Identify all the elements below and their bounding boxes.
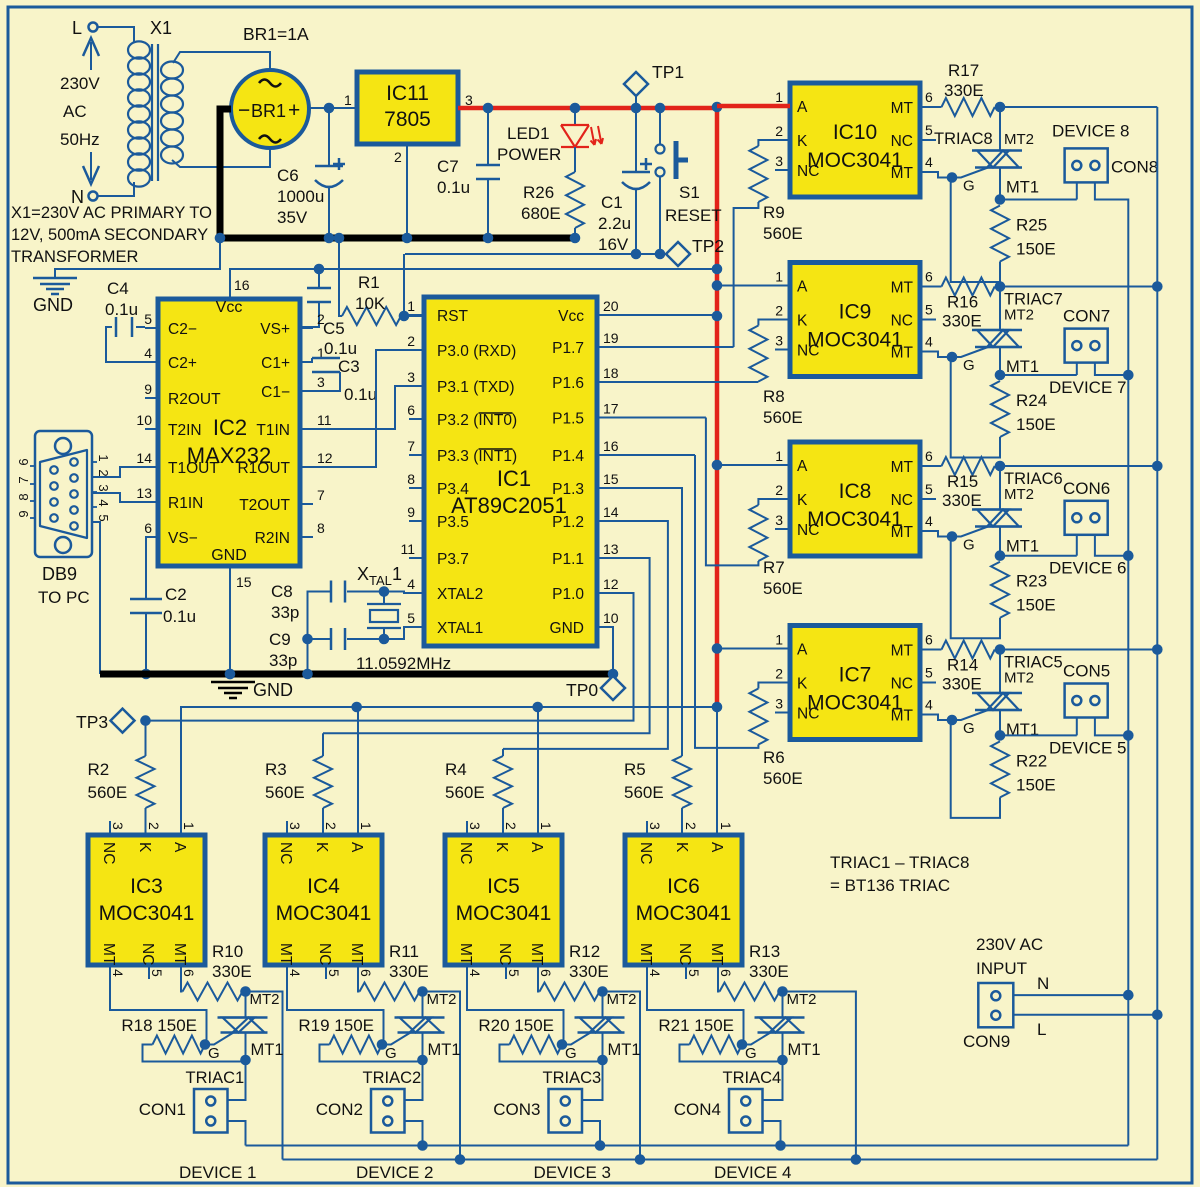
svg-text:3: 3 xyxy=(775,153,783,169)
svg-text:MT2: MT2 xyxy=(1004,131,1034,148)
svg-text:G: G xyxy=(963,720,975,737)
svg-text:0.1u: 0.1u xyxy=(163,607,196,626)
ground bus (black, bottom) xyxy=(100,671,613,678)
wire CON9 L xyxy=(1013,1014,1157,1016)
svg-text:VS−: VS− xyxy=(168,530,198,547)
svg-text:R7: R7 xyxy=(763,558,785,577)
svg-text:MOC3041: MOC3041 xyxy=(807,329,903,352)
svg-text:R23: R23 xyxy=(1016,572,1047,591)
svg-text:14: 14 xyxy=(136,450,152,466)
connector CON4 xyxy=(729,1089,763,1133)
svg-text:MT1: MT1 xyxy=(788,1041,821,1059)
svg-text:DB9: DB9 xyxy=(42,564,77,584)
resistor R22 150E xyxy=(991,741,1009,797)
svg-text:R20 150E: R20 150E xyxy=(478,1016,554,1035)
svg-text:Vcc: Vcc xyxy=(216,299,243,316)
svg-text:NC: NC xyxy=(797,522,819,539)
svg-text:7: 7 xyxy=(407,438,415,454)
svg-text:P1.7: P1.7 xyxy=(552,340,584,357)
wire BR1 + to IC11 pin1 xyxy=(309,107,357,109)
resistor R13 330E xyxy=(718,965,720,992)
svg-text:5: 5 xyxy=(686,969,702,977)
wire TRIAC6 MT2 to L bus xyxy=(1000,465,1157,467)
wire TRIAC3 MT2 to L bus xyxy=(597,986,608,997)
svg-text:K: K xyxy=(136,842,153,853)
svg-text:K: K xyxy=(493,842,510,853)
wire CON1 pin2 to N bus xyxy=(228,1121,246,1146)
svg-text:R8: R8 xyxy=(763,387,785,406)
L bus (bottom) xyxy=(283,1159,1158,1161)
svg-text:1: 1 xyxy=(775,632,783,648)
svg-text:3: 3 xyxy=(287,822,303,830)
svg-text:R10: R10 xyxy=(212,942,243,961)
svg-text:560E: 560E xyxy=(763,769,803,788)
svg-text:150E: 150E xyxy=(1016,775,1056,794)
svg-text:5: 5 xyxy=(925,302,933,318)
svg-text:5: 5 xyxy=(925,665,933,681)
svg-text:MT: MT xyxy=(891,165,914,182)
svg-text:CON5: CON5 xyxy=(1063,662,1110,681)
svg-text:NC: NC xyxy=(637,842,654,864)
svg-text:MT: MT xyxy=(637,943,654,966)
svg-text:17: 17 xyxy=(603,401,619,417)
svg-text:2: 2 xyxy=(683,822,699,830)
svg-text:TRIAC4: TRIAC4 xyxy=(723,1069,782,1087)
svg-text:5: 5 xyxy=(925,122,933,138)
triac TRIAC3 xyxy=(602,992,604,1018)
capacitor C5 xyxy=(318,269,320,288)
wire TRIAC2 MT2 to L bus xyxy=(417,986,428,997)
capacitor C2 xyxy=(145,537,147,598)
svg-text:G: G xyxy=(963,178,975,195)
wire TRIAC7 MT1 to CON7 xyxy=(1000,374,1077,376)
L bus (right vertical) xyxy=(1156,107,1158,1160)
wire N to primary xyxy=(98,182,134,196)
svg-text:BR1: BR1 xyxy=(251,101,286,121)
svg-text:CON3: CON3 xyxy=(493,1100,540,1119)
wire CON2 pin2 to N bus xyxy=(405,1121,423,1146)
svg-text:MT: MT xyxy=(891,524,914,541)
wire TRIAC1 MT2 to L bus xyxy=(240,986,251,997)
triac TRIAC4 xyxy=(782,992,784,1018)
svg-text:16: 16 xyxy=(234,277,250,293)
svg-text:R21 150E: R21 150E xyxy=(658,1016,734,1035)
svg-text:A: A xyxy=(348,842,365,853)
svg-text:12V, 500mA SECONDARY: 12V, 500mA SECONDARY xyxy=(11,226,208,244)
svg-text:G: G xyxy=(565,1045,577,1062)
svg-text:9: 9 xyxy=(407,504,415,520)
svg-text:R11: R11 xyxy=(389,942,419,961)
svg-text:560E: 560E xyxy=(763,408,803,427)
svg-text:12: 12 xyxy=(317,450,333,466)
arrow down (neutral) xyxy=(90,152,92,180)
svg-text:0.1u: 0.1u xyxy=(344,385,377,404)
connector CON2 xyxy=(371,1089,405,1133)
svg-text:XTAL1: XTAL1 xyxy=(437,620,483,637)
svg-text:NC: NC xyxy=(797,706,819,723)
resistor R3 560E xyxy=(314,756,332,808)
svg-text:G: G xyxy=(963,357,975,374)
svg-text:6: 6 xyxy=(538,969,554,977)
wire DB9 pin2 to MAX232 T1OUT xyxy=(92,467,145,477)
optocoupler IC3 MOC3041 xyxy=(88,835,205,965)
svg-text:A: A xyxy=(797,642,808,659)
wire MAX232 T1IN to IC1 P3.1(TXD) xyxy=(300,386,424,429)
svg-text:NC: NC xyxy=(891,676,913,693)
svg-text:230V AC: 230V AC xyxy=(976,935,1043,954)
connector CON5 xyxy=(1065,684,1108,718)
svg-text:15: 15 xyxy=(603,471,619,487)
capacitor C3 xyxy=(300,358,312,362)
svg-text:R13: R13 xyxy=(749,942,780,961)
optocoupler IC10 MOC3041 xyxy=(790,83,920,197)
svg-text:4: 4 xyxy=(467,969,483,977)
svg-text:MT1: MT1 xyxy=(428,1041,461,1059)
svg-text:NC: NC xyxy=(891,492,913,509)
regulator IC11 7805 xyxy=(357,72,458,144)
resistor R20 150E xyxy=(510,1036,563,1054)
wire +5V to IC4 pin1 xyxy=(357,707,359,835)
wire +5V rail to IC7 pin1 xyxy=(717,648,790,650)
svg-text:VS+: VS+ xyxy=(260,321,290,338)
svg-text:R12: R12 xyxy=(569,942,600,961)
resistor R14 330E xyxy=(942,641,995,659)
junction dots ground bus xyxy=(225,669,236,680)
svg-text:4: 4 xyxy=(925,513,933,529)
connector CON1 xyxy=(194,1089,228,1133)
svg-text:4: 4 xyxy=(287,969,303,977)
svg-text:TAL: TAL xyxy=(369,573,392,588)
svg-text:MT1: MT1 xyxy=(1006,538,1039,556)
triac TRIAC6 xyxy=(999,466,1001,510)
test point TP1 xyxy=(635,96,637,108)
svg-text:IC8: IC8 xyxy=(839,480,872,503)
wire IC1 P1.0 to R2 line xyxy=(146,593,634,721)
svg-text:L: L xyxy=(72,18,82,38)
svg-text:A: A xyxy=(171,842,188,853)
wire CON4 pin2 to N bus xyxy=(763,1121,781,1146)
resistor R24 150E xyxy=(991,381,1009,437)
svg-text:P1.2: P1.2 xyxy=(552,514,584,531)
svg-text:MT2: MT2 xyxy=(607,991,637,1008)
svg-text:330E: 330E xyxy=(942,312,982,331)
svg-text:2: 2 xyxy=(317,311,325,327)
svg-text:S1: S1 xyxy=(679,183,700,202)
svg-text:NC: NC xyxy=(457,842,474,864)
svg-text:7: 7 xyxy=(317,487,325,503)
svg-text:G: G xyxy=(745,1045,757,1062)
svg-text:MT2: MT2 xyxy=(1004,486,1034,503)
svg-text:CON2: CON2 xyxy=(316,1100,363,1119)
svg-text:IC7: IC7 xyxy=(839,664,872,687)
wire TRIAC6 MT1 to CON6 xyxy=(1000,555,1077,557)
svg-text:G: G xyxy=(963,537,975,554)
svg-text:P3.2 (INT0): P3.2 (INT0) xyxy=(437,412,517,429)
wire IC1 GND pin10 to ground bus xyxy=(612,627,613,674)
svg-text:11.0592MHz: 11.0592MHz xyxy=(356,654,451,673)
svg-text:C8: C8 xyxy=(271,582,293,601)
svg-text:GND: GND xyxy=(33,295,73,315)
svg-text:BR1=1A: BR1=1A xyxy=(243,24,309,44)
resistor R1 10K xyxy=(339,238,342,316)
svg-text:1: 1 xyxy=(96,454,111,461)
svg-text:1: 1 xyxy=(775,448,783,464)
svg-text:P3.7: P3.7 xyxy=(437,551,469,568)
test point TP2 xyxy=(666,242,690,266)
svg-text:MOC3041: MOC3041 xyxy=(807,692,903,715)
svg-text:MT1: MT1 xyxy=(251,1041,284,1059)
svg-text:6: 6 xyxy=(358,969,374,977)
wire IC1 P1.1 to R3 line xyxy=(323,558,650,733)
svg-text:330E: 330E xyxy=(569,962,609,981)
svg-text:TRANSFORMER: TRANSFORMER xyxy=(11,248,139,266)
wire CON8 pin2 to N bus xyxy=(1095,182,1128,211)
svg-text:C1−: C1− xyxy=(261,384,290,401)
svg-text:MT: MT xyxy=(891,708,914,725)
svg-text:MT2: MT2 xyxy=(250,991,280,1008)
svg-text:TP2: TP2 xyxy=(692,236,724,256)
svg-text:DEVICE 6: DEVICE 6 xyxy=(1049,559,1126,578)
wire RST line xyxy=(405,253,666,255)
svg-text:R6: R6 xyxy=(763,748,785,767)
svg-text:11: 11 xyxy=(400,541,415,557)
svg-text:P1.1: P1.1 xyxy=(552,551,584,568)
svg-text:INPUT: INPUT xyxy=(976,959,1027,978)
svg-text:4: 4 xyxy=(647,969,663,977)
optocoupler IC4 MOC3041 xyxy=(265,835,382,965)
svg-text:8: 8 xyxy=(16,493,31,500)
svg-text:C1+: C1+ xyxy=(261,355,290,372)
svg-text:DEVICE 8: DEVICE 8 xyxy=(1052,121,1129,140)
svg-text:CON9: CON9 xyxy=(963,1032,1010,1051)
wire +5V to IC6 pin1 xyxy=(716,707,718,835)
svg-text:13: 13 xyxy=(603,541,619,557)
svg-text:C1: C1 xyxy=(601,193,623,212)
svg-text:6: 6 xyxy=(407,402,415,418)
svg-text:230V: 230V xyxy=(60,74,100,93)
svg-text:5: 5 xyxy=(925,481,933,497)
svg-text:NC: NC xyxy=(797,343,819,360)
svg-text:3: 3 xyxy=(110,822,126,830)
svg-text:6: 6 xyxy=(925,269,933,285)
svg-text:X: X xyxy=(357,564,369,584)
svg-text:9: 9 xyxy=(144,381,152,397)
svg-text:CON8: CON8 xyxy=(1111,157,1158,176)
svg-text:DEVICE 7: DEVICE 7 xyxy=(1049,378,1126,397)
svg-text:150E: 150E xyxy=(1016,415,1056,434)
optocoupler IC5 MOC3041 xyxy=(445,835,562,965)
crystal XTAL1 11.0592MHz xyxy=(370,610,398,622)
wire IC1 Vcc pin20 to +5V rail xyxy=(612,314,717,316)
ground GND (bottom) xyxy=(211,682,255,698)
svg-text:P3.4: P3.4 xyxy=(437,481,469,498)
svg-text:TRIAC1 – TRIAC8: TRIAC1 – TRIAC8 xyxy=(830,853,970,872)
triac TRIAC5 xyxy=(999,650,1001,694)
svg-text:MT: MT xyxy=(891,643,914,660)
resistor R6 560E xyxy=(758,683,790,689)
svg-text:MT2: MT2 xyxy=(1004,307,1034,324)
svg-text:LED1: LED1 xyxy=(507,124,550,143)
resistor R23 150E xyxy=(991,562,1009,618)
svg-text:150E: 150E xyxy=(1016,596,1056,615)
resistor R16 330E xyxy=(942,278,995,296)
svg-text:1: 1 xyxy=(358,822,374,830)
wire IC1 P1.2 to R4 line xyxy=(503,521,668,749)
resistor R17 330E xyxy=(942,98,995,116)
svg-text:4: 4 xyxy=(925,697,933,713)
svg-text:MT1: MT1 xyxy=(1006,179,1039,197)
svg-text:0.1u: 0.1u xyxy=(437,178,470,197)
wire IC1 P1.5 to R7 xyxy=(612,417,706,419)
svg-text:MOC3041: MOC3041 xyxy=(636,902,732,925)
wire ground-bus to GND symbol xyxy=(55,238,220,277)
svg-text:3: 3 xyxy=(407,369,415,385)
svg-text:4: 4 xyxy=(144,345,152,361)
svg-text:POWER: POWER xyxy=(497,145,561,164)
svg-text:C2−: C2− xyxy=(168,321,197,338)
svg-text:1: 1 xyxy=(538,822,554,830)
svg-text:4: 4 xyxy=(407,576,415,592)
svg-text:A: A xyxy=(797,458,808,475)
svg-text:CON1: CON1 xyxy=(139,1100,186,1119)
wire IC10 pin4 to gate xyxy=(936,172,952,178)
wire IC8 pin4 to gate xyxy=(936,531,952,537)
svg-text:3: 3 xyxy=(467,822,483,830)
svg-text:IC9: IC9 xyxy=(839,301,872,324)
svg-text:2: 2 xyxy=(146,822,162,830)
resistor R10 330E xyxy=(181,965,183,992)
svg-text:3: 3 xyxy=(96,484,111,491)
wire +5V to IC3 pin1 xyxy=(180,707,182,835)
svg-text:R2IN: R2IN xyxy=(255,530,290,547)
svg-text:K: K xyxy=(797,133,808,150)
svg-text:3: 3 xyxy=(465,92,473,108)
svg-text:16: 16 xyxy=(603,438,619,454)
svg-text:T1IN: T1IN xyxy=(256,422,290,439)
svg-text:TRIAC1: TRIAC1 xyxy=(186,1069,245,1087)
svg-text:16V: 16V xyxy=(598,235,629,254)
svg-text:3: 3 xyxy=(775,696,783,712)
svg-text:A: A xyxy=(708,842,725,853)
svg-text:MT: MT xyxy=(348,943,365,966)
triac TRIAC2 xyxy=(422,992,424,1018)
svg-text:DEVICE 2: DEVICE 2 xyxy=(356,1163,433,1182)
svg-text:8: 8 xyxy=(317,520,325,536)
svg-text:560E: 560E xyxy=(445,783,485,802)
svg-text:R18 150E: R18 150E xyxy=(121,1016,197,1035)
wire IC7 pin4 to gate xyxy=(936,715,952,721)
svg-text:5: 5 xyxy=(96,514,111,521)
wire XTAL1 to crystal bottom xyxy=(384,627,409,639)
connector CON9 (230V AC input) xyxy=(978,983,1013,1027)
svg-text:N: N xyxy=(1037,974,1049,993)
wire CON9 N xyxy=(1013,994,1128,996)
wire TRIAC5 MT2 to L bus xyxy=(1000,649,1157,651)
svg-text:T2OUT: T2OUT xyxy=(239,497,290,514)
svg-text:20: 20 xyxy=(603,298,619,314)
optocoupler IC8 MOC3041 xyxy=(790,442,920,556)
svg-text:R2OUT: R2OUT xyxy=(168,391,221,408)
svg-text:8: 8 xyxy=(407,471,415,487)
wire L to primary xyxy=(98,27,134,42)
resistor R7 560E xyxy=(758,499,790,505)
svg-text:R19 150E: R19 150E xyxy=(298,1016,374,1035)
wire DB9 pin3 to MAX232 R1IN xyxy=(92,493,145,502)
svg-text:R3: R3 xyxy=(265,760,287,779)
resistor R9 560E xyxy=(758,140,790,146)
capacitor C7 xyxy=(487,112,489,165)
svg-text:35V: 35V xyxy=(277,208,308,227)
svg-text:330E: 330E xyxy=(389,962,429,981)
wire IC4 pin4 to gate xyxy=(287,965,384,1045)
wire DB9 pin5 to ground bus xyxy=(92,522,100,674)
wire CON7 pin2 to N bus xyxy=(1095,363,1128,375)
test point TP3 xyxy=(111,709,135,733)
wire +5V to IC10 pin1 (red) xyxy=(717,104,790,109)
svg-text:6: 6 xyxy=(925,448,933,464)
transformer X1 xyxy=(128,41,150,58)
svg-text:NC: NC xyxy=(139,943,156,965)
svg-text:GND: GND xyxy=(550,620,584,637)
svg-text:R26: R26 xyxy=(523,183,554,202)
triac TRIAC8 xyxy=(999,107,1001,151)
wire IC1 P1.7 to R9 xyxy=(612,346,734,348)
svg-text:R4: R4 xyxy=(445,760,467,779)
wire TRIAC5 MT1 to CON5 xyxy=(1000,734,1077,736)
svg-text:NC: NC xyxy=(277,842,294,864)
wire IC6 pin4 to gate xyxy=(647,965,744,1045)
switch S1 RESET xyxy=(659,108,661,144)
svg-text:6: 6 xyxy=(181,969,197,977)
wire Vcc line (MAX232 pin16 / C5 / +5V) xyxy=(230,269,319,299)
svg-text:C9: C9 xyxy=(269,630,291,649)
svg-text:R1: R1 xyxy=(358,273,380,292)
wire TRIAC8 MT2 to L bus xyxy=(1000,106,1157,108)
svg-text:T1OUT: T1OUT xyxy=(168,460,219,477)
resistor R5 560E xyxy=(673,756,691,808)
svg-text:AC: AC xyxy=(63,102,87,121)
svg-text:G: G xyxy=(385,1045,397,1062)
svg-text:2: 2 xyxy=(503,822,519,830)
svg-text:DEVICE 5: DEVICE 5 xyxy=(1049,738,1126,757)
svg-text:NC: NC xyxy=(891,313,913,330)
svg-text:MOC3041: MOC3041 xyxy=(807,508,903,531)
wire CON6 pin2 to N bus xyxy=(1095,535,1128,556)
svg-text:L: L xyxy=(1037,1020,1046,1039)
wire +5V to IC5 pin1 xyxy=(537,707,539,835)
svg-text:P3.5: P3.5 xyxy=(437,514,469,531)
svg-text:IC4: IC4 xyxy=(307,875,340,898)
svg-text:MT2: MT2 xyxy=(427,991,457,1008)
svg-text:4: 4 xyxy=(96,499,111,506)
ground GND (top left) xyxy=(33,278,77,294)
svg-text:NC: NC xyxy=(797,163,819,180)
wire MAX232 pin15 to ground bus xyxy=(229,566,231,670)
svg-text:+: + xyxy=(288,99,300,122)
svg-text:NC: NC xyxy=(891,133,913,150)
svg-text:TO PC: TO PC xyxy=(38,588,90,607)
svg-text:R17: R17 xyxy=(948,61,979,80)
resistor R4 560E xyxy=(494,756,512,808)
wire TRIAC3 MT1 to CON3 pin1 xyxy=(582,1060,603,1100)
wire MAX232 R1OUT to IC1 P3.0(RXD) xyxy=(300,350,424,467)
svg-text:0.1u: 0.1u xyxy=(324,339,357,358)
svg-text:5: 5 xyxy=(506,969,522,977)
svg-text:560E: 560E xyxy=(763,579,803,598)
svg-text:DEVICE 4: DEVICE 4 xyxy=(714,1163,791,1182)
resistor R19 150E xyxy=(330,1036,383,1054)
svg-text:2.2u: 2.2u xyxy=(598,214,631,233)
